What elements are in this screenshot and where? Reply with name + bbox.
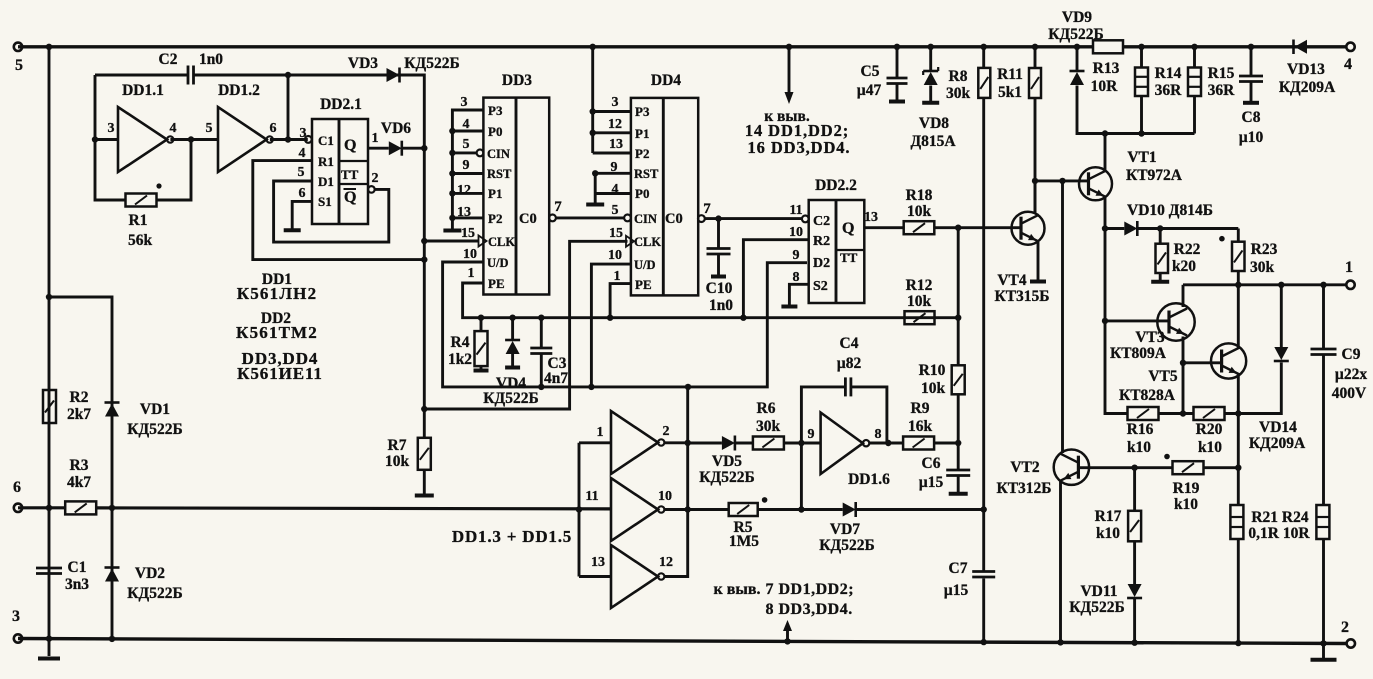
svg-text:10: 10: [608, 248, 622, 263]
svg-text:КТ809А: КТ809А: [1110, 345, 1167, 362]
svg-text:C9: C9: [1342, 346, 1361, 363]
svg-text:R13: R13: [1093, 60, 1120, 77]
svg-text:R12: R12: [906, 277, 933, 294]
svg-text:9: 9: [808, 427, 815, 442]
svg-text:VD14: VD14: [1259, 419, 1297, 436]
svg-text:TT: TT: [840, 250, 858, 265]
svg-text:R2: R2: [70, 389, 89, 406]
svg-text:C10: C10: [706, 280, 733, 297]
svg-text:6: 6: [299, 186, 306, 201]
svg-text:µ47: µ47: [857, 82, 882, 99]
svg-text:U/D: U/D: [634, 258, 656, 272]
svg-text:R14: R14: [1155, 65, 1182, 82]
svg-text:P0: P0: [488, 124, 502, 139]
svg-text:DD1.1: DD1.1: [122, 82, 164, 99]
svg-text:7 DD1,DD2;: 7 DD1,DD2;: [766, 581, 855, 598]
svg-text:8 DD3,DD4.: 8 DD3,DD4.: [766, 601, 853, 618]
svg-text:DD1.6: DD1.6: [848, 471, 890, 488]
svg-text:CIN: CIN: [634, 212, 657, 226]
svg-text:К561ИЕ11: К561ИЕ11: [237, 364, 323, 383]
svg-text:DD3: DD3: [502, 72, 532, 89]
svg-text:30k: 30k: [1250, 259, 1275, 276]
svg-text:P3: P3: [488, 103, 503, 118]
svg-text:VD11: VD11: [1080, 583, 1117, 600]
svg-text:13: 13: [591, 555, 605, 570]
svg-text:CLK: CLK: [488, 235, 515, 249]
svg-text:5: 5: [206, 121, 213, 136]
svg-text:9: 9: [611, 160, 618, 175]
svg-text:КТ972А: КТ972А: [1126, 167, 1183, 184]
svg-text:C1: C1: [318, 133, 334, 148]
svg-text:R7: R7: [388, 437, 407, 454]
svg-text:10: 10: [658, 489, 672, 504]
svg-text:К561ТМ2: К561ТМ2: [236, 323, 318, 342]
svg-text:P2: P2: [488, 211, 502, 226]
svg-text:56k: 56k: [128, 232, 153, 249]
svg-text:5k1: 5k1: [998, 84, 1022, 101]
svg-text:R4: R4: [451, 334, 470, 351]
svg-text:Q: Q: [344, 189, 356, 206]
svg-text:13: 13: [457, 205, 471, 220]
svg-text:2: 2: [372, 171, 379, 186]
svg-text:DD1.2: DD1.2: [218, 82, 260, 99]
svg-text:VD13: VD13: [1287, 61, 1325, 78]
svg-text:VD3: VD3: [348, 55, 378, 72]
svg-text:6: 6: [270, 121, 277, 136]
svg-text:P0: P0: [635, 186, 649, 201]
svg-text:3: 3: [461, 95, 468, 110]
svg-text:36R: 36R: [1208, 82, 1236, 99]
svg-text:15: 15: [609, 226, 623, 241]
svg-text:4: 4: [299, 146, 306, 161]
svg-text:µ15: µ15: [919, 474, 944, 491]
svg-text:TT: TT: [341, 167, 359, 182]
svg-text:µ10: µ10: [1239, 129, 1264, 146]
svg-text:4: 4: [463, 117, 470, 132]
svg-text:DD4: DD4: [651, 72, 681, 89]
svg-text:R15: R15: [1208, 65, 1235, 82]
svg-text:Д815А: Д815А: [910, 133, 956, 150]
svg-text:5: 5: [612, 203, 619, 218]
svg-text:КД522Б: КД522Б: [127, 585, 182, 602]
svg-text:C6: C6: [922, 455, 941, 472]
svg-text:10k: 10k: [907, 203, 932, 220]
svg-text:VD6: VD6: [381, 120, 411, 137]
svg-text:C2: C2: [159, 51, 178, 68]
svg-text:1: 1: [372, 131, 379, 146]
svg-text:7: 7: [703, 201, 711, 217]
svg-text:10: 10: [463, 247, 477, 262]
svg-text:C4: C4: [840, 335, 859, 352]
svg-text:1k2: 1k2: [448, 351, 472, 368]
svg-text:1n0: 1n0: [199, 51, 223, 68]
svg-text:1: 1: [614, 269, 621, 284]
svg-text:S2: S2: [813, 279, 828, 294]
svg-text:P1: P1: [635, 126, 649, 141]
svg-text:C5: C5: [861, 63, 880, 80]
svg-text:R8: R8: [949, 68, 968, 85]
svg-text:VT3: VT3: [1135, 329, 1165, 346]
svg-text:C7: C7: [949, 560, 968, 577]
svg-text:VD5: VD5: [712, 453, 742, 470]
svg-text:30k: 30k: [756, 418, 781, 435]
svg-text:2: 2: [663, 424, 670, 439]
svg-text:4: 4: [170, 121, 177, 136]
svg-text:1: 1: [597, 425, 604, 440]
svg-text:9: 9: [463, 158, 470, 173]
svg-text:7: 7: [554, 199, 562, 215]
svg-text:КТ315Б: КТ315Б: [994, 288, 1049, 305]
svg-text:13: 13: [864, 210, 878, 225]
svg-text:R10: R10: [919, 362, 946, 379]
svg-text:12: 12: [659, 555, 673, 570]
svg-text:4: 4: [612, 182, 619, 197]
svg-text:R1: R1: [129, 212, 148, 229]
svg-text:16k: 16k: [908, 418, 933, 435]
svg-text:1n0: 1n0: [709, 297, 733, 314]
svg-text:10R: 10R: [1091, 78, 1119, 95]
svg-text:R1: R1: [318, 154, 334, 169]
svg-text:16 DD3,DD4.: 16 DD3,DD4.: [748, 138, 851, 157]
svg-text:C1: C1: [68, 559, 87, 576]
svg-text:10k: 10k: [921, 380, 946, 397]
svg-text:6: 6: [13, 479, 21, 496]
svg-text:10k: 10k: [907, 293, 932, 310]
svg-text:0,1R 10R: 0,1R 10R: [1248, 525, 1310, 542]
svg-text:VD2: VD2: [135, 565, 165, 582]
svg-text:13: 13: [609, 137, 623, 152]
svg-text:CLK: CLK: [634, 235, 661, 249]
svg-text:36R: 36R: [1155, 82, 1183, 99]
svg-text:4n7: 4n7: [544, 370, 568, 387]
svg-text:R3: R3: [70, 457, 89, 474]
svg-text:VD9: VD9: [1062, 9, 1092, 26]
svg-text:k10: k10: [1127, 439, 1151, 456]
svg-text:DD2.2: DD2.2: [815, 177, 857, 194]
svg-text:DD2.1: DD2.1: [320, 96, 362, 113]
svg-text:D1: D1: [318, 174, 334, 189]
svg-text:PE: PE: [488, 276, 505, 291]
svg-text:C8: C8: [1242, 109, 1261, 126]
svg-text:3: 3: [612, 95, 619, 110]
svg-text:C0: C0: [519, 211, 537, 227]
svg-text:µ22x: µ22x: [1335, 366, 1367, 383]
svg-text:12: 12: [608, 117, 622, 132]
svg-text:15: 15: [461, 226, 475, 241]
svg-text:КД209А: КД209А: [1279, 79, 1336, 96]
svg-text:PE: PE: [635, 277, 652, 292]
svg-text:R23: R23: [1251, 241, 1278, 258]
svg-text:8: 8: [793, 270, 800, 285]
svg-text:Q: Q: [842, 220, 854, 237]
svg-text:3: 3: [108, 121, 115, 136]
svg-text:400V: 400V: [1332, 385, 1367, 402]
svg-text:R22: R22: [1174, 241, 1201, 258]
svg-text:4k7: 4k7: [67, 474, 91, 491]
svg-text:R19: R19: [1173, 480, 1200, 497]
svg-text:k10: k10: [1174, 496, 1198, 513]
svg-text:КТ312Б: КТ312Б: [996, 480, 1051, 497]
svg-text:C2: C2: [813, 214, 830, 229]
svg-text:КД522Б: КД522Б: [127, 421, 182, 438]
svg-text:5: 5: [298, 165, 305, 180]
svg-text:10k: 10k: [385, 453, 410, 470]
svg-text:DD1.3 + DD1.5: DD1.3 + DD1.5: [452, 527, 572, 546]
svg-text:8: 8: [875, 427, 882, 442]
svg-text:5: 5: [463, 137, 470, 152]
svg-text:P3: P3: [635, 104, 650, 119]
svg-text:1М5: 1М5: [729, 533, 759, 550]
svg-text:КД522Б: КД522Б: [483, 390, 538, 407]
svg-text:R11: R11: [997, 66, 1023, 83]
svg-text:U/D: U/D: [487, 256, 509, 270]
svg-text:5: 5: [15, 57, 23, 74]
svg-text:КД209А: КД209А: [1249, 435, 1306, 452]
svg-text:CIN: CIN: [487, 147, 510, 161]
svg-text:3: 3: [12, 608, 20, 625]
svg-text:R21 R24: R21 R24: [1251, 509, 1309, 526]
svg-text:КД522Б: КД522Б: [404, 55, 459, 72]
svg-text:VT1: VT1: [1127, 149, 1156, 166]
svg-text:R9: R9: [911, 400, 930, 417]
svg-text:КТ828А: КТ828А: [1119, 387, 1176, 404]
svg-text:VD7: VD7: [830, 521, 860, 538]
svg-text:k20: k20: [1172, 258, 1196, 275]
svg-text:C0: C0: [665, 211, 683, 227]
svg-text:К561ЛН2: К561ЛН2: [237, 284, 318, 303]
svg-text:КД522Б: КД522Б: [1048, 26, 1103, 43]
svg-text:k10: k10: [1096, 525, 1120, 542]
svg-text:VT5: VT5: [1148, 368, 1178, 385]
svg-text:КД522Б: КД522Б: [699, 469, 754, 486]
svg-text:VD10 Д814Б: VD10 Д814Б: [1127, 202, 1213, 219]
svg-text:Q: Q: [344, 137, 356, 154]
svg-text:R2: R2: [813, 234, 830, 249]
svg-text:2k7: 2k7: [67, 406, 91, 423]
svg-text:1: 1: [468, 266, 475, 281]
svg-text:30k: 30k: [946, 85, 971, 102]
svg-text:D2: D2: [813, 256, 830, 271]
svg-text:VT2: VT2: [1010, 459, 1040, 476]
svg-text:10: 10: [789, 225, 803, 240]
svg-text:3n3: 3n3: [65, 576, 89, 593]
svg-text:RST: RST: [634, 167, 659, 181]
svg-text:P2: P2: [635, 146, 649, 161]
svg-text:k10: k10: [1198, 439, 1222, 456]
svg-text:VD1: VD1: [140, 401, 170, 418]
svg-text:11: 11: [789, 203, 802, 218]
svg-text:R17: R17: [1095, 508, 1122, 525]
svg-text:RST: RST: [487, 167, 512, 181]
svg-text:к выв.: к выв.: [714, 581, 761, 598]
svg-text:КД522Б: КД522Б: [1069, 599, 1124, 616]
svg-text:VD8: VD8: [919, 115, 949, 132]
svg-text:µ82: µ82: [837, 355, 862, 372]
svg-text:1: 1: [1345, 259, 1353, 276]
svg-text:2: 2: [1341, 619, 1349, 636]
svg-text:P1: P1: [488, 186, 502, 201]
svg-text:3: 3: [300, 126, 307, 141]
svg-text:R6: R6: [757, 400, 776, 417]
svg-text:КД522Б: КД522Б: [819, 537, 874, 554]
svg-text:VT4: VT4: [997, 272, 1027, 289]
svg-text:S1: S1: [318, 194, 332, 209]
svg-text:11: 11: [585, 489, 598, 504]
svg-text:4: 4: [1344, 56, 1352, 73]
svg-text:12: 12: [457, 183, 471, 198]
svg-text:R20: R20: [1196, 421, 1223, 438]
svg-text:R18: R18: [906, 187, 933, 204]
svg-text:µ15: µ15: [944, 582, 969, 599]
svg-text:R16: R16: [1127, 421, 1154, 438]
svg-text:9: 9: [793, 248, 800, 263]
